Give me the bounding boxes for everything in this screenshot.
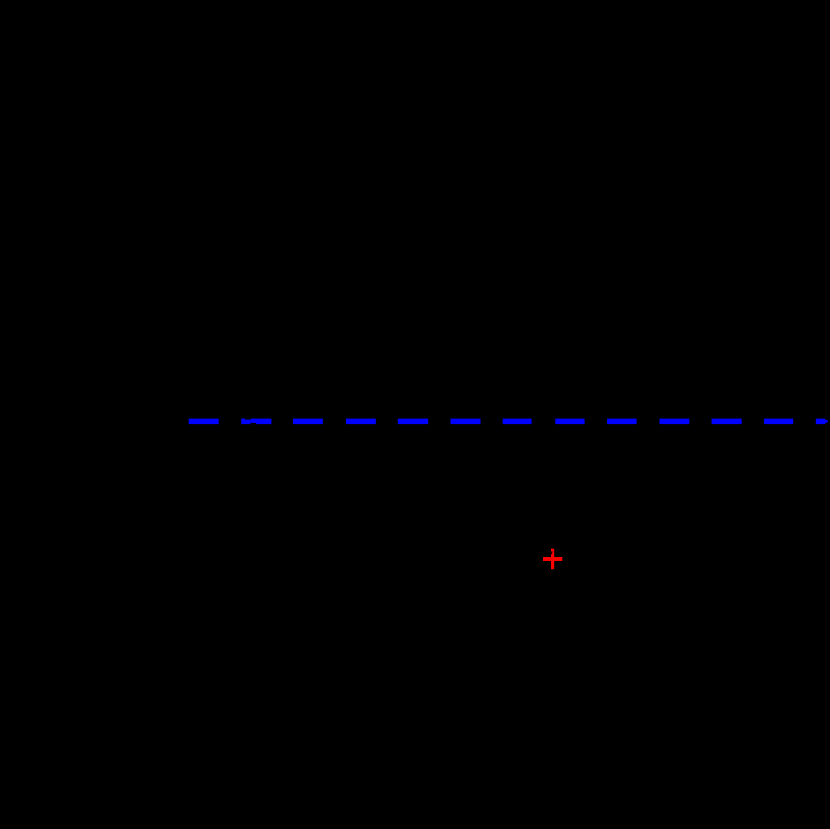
red plus marker [543, 549, 562, 570]
blue dashed horizontal line [189, 419, 828, 425]
black notches over second dash (occluding black curve) [245, 419, 256, 425]
black bite on plus (occluding black curve) [551, 551, 553, 554]
